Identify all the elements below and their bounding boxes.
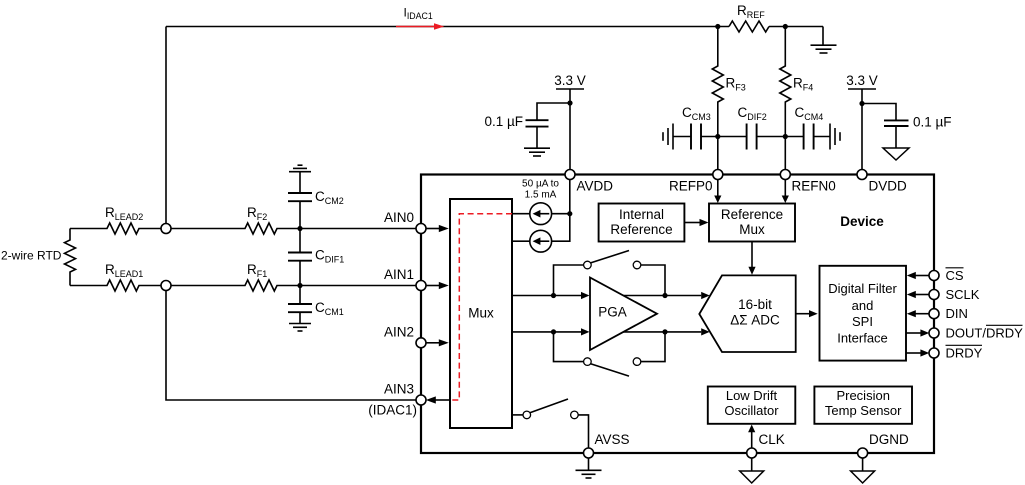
switch bypass top — [584, 251, 641, 269]
node DVDD bypass junction — [859, 101, 864, 106]
current source IDAC1 — [530, 203, 552, 225]
wire AIN3 arrow out of Mux — [426, 396, 450, 403]
junction AIN1/caps — [297, 283, 302, 288]
wire AIN3 from bottom lead node — [166, 286, 421, 401]
svg-text:DRDY: DRDY — [946, 346, 983, 361]
ground (DVDD bypass, triangle) — [883, 148, 909, 160]
svg-text:50 µA to: 50 µA to — [522, 178, 559, 189]
wire CLK arrow into oscillator — [748, 425, 755, 449]
svg-text:0.1 µF: 0.1 µF — [484, 114, 523, 129]
wire Internal Reference to Reference Mux — [684, 219, 708, 226]
wire left vertical from top run to RTD top node — [165, 27, 167, 229]
wire Reference Mux to ADC — [748, 242, 755, 275]
svg-text:Mux: Mux — [739, 222, 765, 237]
wire DGND to ground — [862, 458, 864, 471]
red dashed IDAC1 internal route — [451, 214, 513, 400]
junction output 2 — [662, 329, 667, 334]
svg-text:DIN: DIN — [946, 306, 968, 321]
pin CLK — [747, 448, 757, 458]
capacitor CCM2 — [288, 172, 312, 229]
svg-text:Reference: Reference — [721, 207, 783, 222]
svg-text:Reference: Reference — [610, 222, 672, 237]
wire switch to AVSS pin — [578, 415, 588, 449]
capacitor CDIF2 — [718, 124, 786, 150]
svg-text:SPI: SPI — [852, 314, 873, 329]
node REFP0 cap junction — [715, 134, 720, 139]
junction output 1 — [662, 293, 667, 298]
pin REFN0 — [780, 170, 790, 180]
Reference Mux block — [709, 204, 795, 242]
wire ADC to Digital Filter — [796, 310, 818, 317]
ground (right of CCM4, rotated) — [830, 124, 840, 150]
pin DRDY — [929, 348, 939, 358]
wire SCLK into Digital Filter — [907, 291, 930, 298]
junction AVDD/current sources — [567, 211, 572, 216]
resistor RF4 — [780, 27, 791, 137]
2-wire RTD resistor — [65, 229, 76, 286]
wire Mux to AVSS switch — [512, 414, 523, 416]
current source IDAC2 — [530, 230, 552, 252]
svg-text:1.5 mA: 1.5 mA — [525, 189, 557, 200]
Precision Temp Sensor block — [814, 387, 912, 424]
ground (above CCM2, flipped) — [289, 165, 311, 172]
node AVDD bypass junction — [567, 100, 572, 105]
pin AIN3 — [416, 395, 426, 405]
wire top IDAC1 run — [166, 27, 823, 45]
resistor RF1 — [166, 280, 300, 291]
svg-text:(IDAC1): (IDAC1) — [368, 403, 417, 418]
pin DOUT/DRDY — [929, 328, 939, 338]
pin AVSS — [584, 448, 594, 458]
resistor RF2 — [166, 223, 300, 234]
node bottom lead — [161, 281, 171, 291]
Digital Filter and SPI Interface block — [820, 266, 907, 361]
svg-text:ΔΣ ADC: ΔΣ ADC — [730, 313, 780, 328]
svg-text:DOUT/DRDY: DOUT/DRDY — [946, 326, 1024, 341]
svg-text:Temp Sensor: Temp Sensor — [825, 403, 902, 418]
wire AIN0 arrow into Mux — [426, 225, 449, 232]
svg-text:AVSS: AVSS — [595, 432, 630, 447]
svg-text:REFP0: REFP0 — [669, 179, 713, 194]
resistor RLEAD1 — [70, 280, 166, 291]
pin AIN0 — [416, 224, 426, 234]
pin CS — [929, 271, 939, 281]
svg-text:Oscillator: Oscillator — [724, 403, 779, 418]
svg-text:3.3 V: 3.3 V — [554, 73, 586, 88]
svg-text:Internal: Internal — [619, 207, 664, 222]
wire Mux to IDAC source 2 — [512, 240, 530, 242]
ground (AVDD bypass) — [524, 148, 550, 156]
ground (DGND, triangle) — [851, 471, 875, 483]
svg-text:Precision: Precision — [836, 388, 889, 403]
pin DGND — [858, 448, 868, 458]
resistor RLEAD2 — [70, 223, 166, 234]
capacitor CCM1 — [288, 286, 312, 324]
capacitor 0.1uF AVDD — [526, 103, 571, 148]
resistor RREF — [729, 21, 769, 32]
wire AIN1 — [300, 285, 421, 287]
pin SCLK — [929, 290, 939, 300]
wire PGA output 2 to ADC — [624, 328, 710, 335]
pin AIN1 — [416, 281, 426, 291]
Internal Reference block — [599, 204, 685, 242]
wire DRDY out of Digital Filter — [906, 349, 929, 356]
wire AIN2 arrow into Mux — [426, 339, 449, 346]
wire REFN0 arrow into Reference Mux — [782, 179, 789, 203]
svg-text:REFN0: REFN0 — [792, 179, 836, 194]
wire Mux to PGA input 1 — [512, 292, 590, 299]
capacitor CCM3 — [673, 124, 718, 150]
node REFP0 top junction — [715, 24, 720, 29]
capacitor CDIF1 — [288, 229, 312, 286]
ground (left of CCM3, rotated) — [663, 124, 673, 150]
svg-text:16-bit: 16-bit — [738, 297, 772, 312]
Mux block — [450, 199, 512, 428]
svg-text:AIN0: AIN0 — [384, 210, 414, 225]
svg-text:CS: CS — [946, 268, 964, 283]
op-amp PGA — [590, 278, 657, 351]
wire IDAC sources to AVDD — [552, 179, 570, 241]
svg-text:DGND: DGND — [869, 432, 909, 447]
junction AIN0/caps — [297, 226, 302, 231]
switch AVSS — [523, 399, 578, 419]
wire PGA output 1 to ADC — [624, 292, 710, 299]
wire AIN0 — [300, 228, 421, 230]
svg-text:and: and — [852, 298, 874, 313]
current label IIDAC1 red arrow — [396, 23, 444, 30]
wire AIN1 arrow into Mux — [426, 282, 449, 289]
ground (below CCM1) — [289, 324, 311, 332]
wire PGA bypass bottom — [554, 332, 666, 362]
svg-text:Mux: Mux — [468, 306, 494, 321]
capacitor 0.1uF DVDD — [862, 104, 909, 148]
svg-text:CLK: CLK — [759, 432, 785, 447]
switch bypass bottom — [584, 358, 641, 376]
wire REFN0 down — [784, 137, 786, 171]
wire DOUT out of Digital Filter — [906, 329, 929, 336]
pin AVDD — [565, 170, 575, 180]
wire Mux to IDAC source 1 — [512, 213, 530, 215]
ground (AVSS) — [576, 470, 602, 478]
node top lead — [161, 224, 171, 234]
node REFN0 top junction — [783, 24, 788, 29]
pin REFP0 — [713, 170, 723, 180]
svg-text:Low Drift: Low Drift — [726, 388, 778, 403]
Low Drift Oscillator block — [708, 387, 796, 424]
pin DVDD — [857, 170, 867, 180]
wire CLK to ground — [751, 458, 753, 471]
ground (top-right after RREF) — [811, 45, 837, 53]
svg-text:AIN3: AIN3 — [384, 382, 414, 397]
wire DIN into Digital Filter — [907, 310, 930, 317]
junction bypass input 1 — [551, 293, 556, 298]
wire REFP0 arrow into Reference Mux — [714, 179, 721, 203]
wire Mux to PGA input 2 — [512, 328, 590, 335]
wire AVSS to ground — [588, 458, 590, 470]
svg-text:2-wire RTD: 2-wire RTD — [1, 249, 62, 263]
node REFN0 cap junction — [783, 134, 788, 139]
svg-text:0.1 µF: 0.1 µF — [913, 115, 952, 130]
svg-text:AVDD: AVDD — [577, 179, 614, 194]
svg-text:AIN2: AIN2 — [384, 325, 414, 340]
wire CS into Digital Filter — [907, 272, 930, 279]
resistor RF3 — [712, 27, 723, 137]
ground (CLK, triangle) — [740, 471, 764, 483]
wire REFP0 down — [717, 137, 719, 171]
junction bypass input 2 — [551, 329, 556, 334]
svg-text:PGA: PGA — [598, 304, 627, 319]
device outer box — [421, 175, 934, 454]
svg-text:AIN1: AIN1 — [384, 267, 414, 282]
svg-text:3.3 V: 3.3 V — [846, 73, 878, 88]
svg-text:Interface: Interface — [837, 331, 888, 346]
capacitor CCM4 — [785, 124, 830, 150]
pin DIN — [929, 309, 939, 319]
wire PGA bypass top — [554, 265, 666, 296]
pin AIN2 — [416, 338, 426, 348]
svg-text:SCLK: SCLK — [946, 287, 980, 302]
svg-text:Device: Device — [840, 214, 884, 229]
svg-text:Digital Filter: Digital Filter — [828, 281, 897, 296]
svg-text:DVDD: DVDD — [869, 179, 908, 194]
ADC 16-bit block — [699, 275, 795, 352]
